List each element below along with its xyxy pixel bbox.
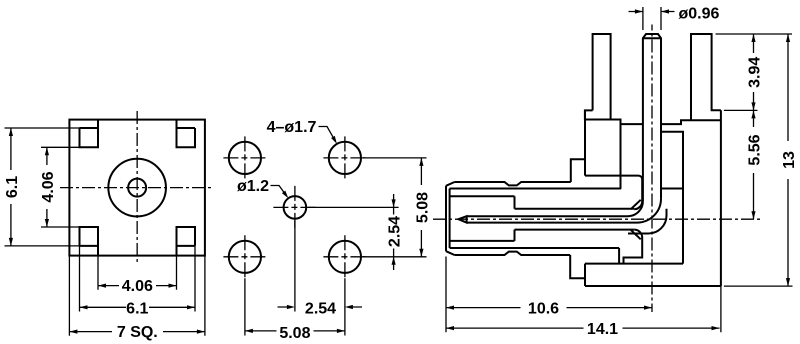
svg-text:7 SQ.: 7 SQ. xyxy=(117,324,158,341)
svg-text:10.6: 10.6 xyxy=(528,301,559,318)
footprint hole top-left xyxy=(229,142,261,174)
svg-text:6.1: 6.1 xyxy=(126,300,148,317)
svg-text:2.54: 2.54 xyxy=(387,216,404,247)
footprint crosshair bottom-right xyxy=(323,235,366,278)
footprint hole bottom-left xyxy=(229,241,261,273)
arrows dim 2.54 right outside xyxy=(392,199,396,264)
svg-text:5.08: 5.08 xyxy=(414,192,431,223)
footprint crosshair bottom-left xyxy=(223,235,266,278)
arrows dim 6.1 bottom xyxy=(80,305,196,309)
arrows dim 6.1 left xyxy=(9,128,13,246)
svg-text:ø1.2: ø1.2 xyxy=(237,178,269,195)
footprint hole bottom-right xyxy=(329,241,361,273)
side view center pin tube xyxy=(643,34,661,201)
dim 4.06 left extension lines xyxy=(41,147,80,227)
svg-text:2.54: 2.54 xyxy=(305,300,336,317)
corner notch top-left xyxy=(80,120,99,148)
side view bottom-left extension line xyxy=(446,257,721,333)
dim 6.1 left dimension line xyxy=(10,128,12,246)
side view bottom extension line xyxy=(724,285,793,287)
arrows dim 5.08 right xyxy=(419,158,423,257)
side view top extension line xyxy=(716,33,793,35)
arrows dim 3.94 xyxy=(751,34,755,110)
footprint crosshair center hole xyxy=(273,186,316,229)
arrows dim o0.96 xyxy=(635,9,669,13)
dim 5.08 right dimension line xyxy=(420,158,422,257)
dim 3.94 dimension line xyxy=(753,34,755,110)
dim o0.96 extension and dimension lines xyxy=(629,7,675,30)
footprint crosshair top-left xyxy=(223,136,266,179)
side view leg step extension line xyxy=(724,109,758,111)
side view barrel centerline xyxy=(433,218,762,220)
footprint extension lines xyxy=(245,158,427,336)
svg-text:5.56: 5.56 xyxy=(747,134,764,165)
svg-text:4.06: 4.06 xyxy=(40,171,57,202)
svg-text:4–ø1.7: 4–ø1.7 xyxy=(267,119,317,136)
front view pin hole circle xyxy=(128,179,146,197)
arrows dim 5.56 xyxy=(751,110,755,219)
side view left mounting leg xyxy=(585,34,611,120)
corner notch bottom-left xyxy=(80,227,99,256)
leader line 4-o1.7 xyxy=(319,127,335,141)
side view center pin with bend xyxy=(458,199,661,223)
dim 13 dimension line xyxy=(787,34,789,286)
dim 7 SQ. bottom dimension line xyxy=(69,331,205,333)
leader line o1.2 xyxy=(271,186,286,195)
footprint crosshair top-right xyxy=(323,136,366,179)
front view horizontal centerline xyxy=(60,187,214,189)
side view body flange step xyxy=(571,110,585,182)
footprint center hole xyxy=(284,196,307,219)
dim 2.54 right dimension line xyxy=(393,194,395,270)
arrows dim 14.1 xyxy=(446,326,720,330)
front view outer circle xyxy=(108,159,166,217)
front view vertical centerline xyxy=(136,111,138,264)
arrows dim 4.06 left xyxy=(45,147,49,227)
corner notch top-right xyxy=(177,120,196,148)
arrows dim 13 xyxy=(786,34,790,286)
dim 6.1 bottom dimension line xyxy=(80,306,196,308)
front view flange square 7mm xyxy=(69,120,205,256)
arrows dim 10.6 xyxy=(446,306,652,310)
svg-text:3.94: 3.94 xyxy=(747,57,764,88)
dim 2.54 bottom dimension line xyxy=(278,306,363,308)
svg-text:5.08: 5.08 xyxy=(279,325,310,342)
arrows dim 4.06 bottom xyxy=(98,284,177,288)
dim 4.06 left dimension line xyxy=(46,147,48,227)
corner notch bottom-right xyxy=(177,227,196,256)
arrow leader o1.2 xyxy=(282,191,288,199)
arrows dim 7 SQ. xyxy=(69,330,205,334)
side view barrel outline xyxy=(446,182,571,255)
arrows dim 5.08 bottom xyxy=(245,329,345,333)
front view bottom extension lines xyxy=(69,246,205,336)
side view body right edge and bottom xyxy=(585,110,721,286)
dim 5.08 bottom dimension line xyxy=(245,330,345,332)
side view body top edge xyxy=(585,120,721,189)
svg-text:ø0.96: ø0.96 xyxy=(679,5,720,22)
svg-text:4.06: 4.06 xyxy=(122,278,153,295)
side view body internal cavity xyxy=(585,132,683,264)
svg-text:13: 13 xyxy=(781,151,798,169)
arrows dim 2.54 bottom outside xyxy=(287,305,353,309)
footprint hole top-right xyxy=(329,142,361,174)
dim 4.06 bottom dimension line xyxy=(98,285,177,287)
side view barrel inner lip lines xyxy=(450,189,683,249)
side view right mounting leg xyxy=(691,34,721,120)
dim 6.1 left extension lines xyxy=(5,128,80,246)
side view body lower steps xyxy=(570,230,683,286)
dim 14.1 dimension line xyxy=(446,327,720,329)
svg-text:6.1: 6.1 xyxy=(4,176,21,198)
arrow leader 4-o1.7 xyxy=(331,136,337,144)
dim 5.56 dimension line xyxy=(753,110,755,219)
svg-text:14.1: 14.1 xyxy=(587,321,618,338)
side view bore xyxy=(450,196,635,241)
dim 10.6 dimension line xyxy=(446,307,652,309)
side view tube vertical centerline xyxy=(651,25,653,313)
